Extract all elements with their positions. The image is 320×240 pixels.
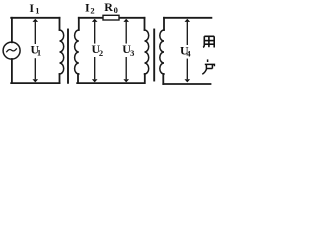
svg-text:2: 2 xyxy=(90,5,94,15)
voltage arrow U3 xyxy=(123,19,129,83)
label I2 xyxy=(85,1,95,16)
transformer T2 secondary coil xyxy=(160,30,164,74)
transformer T1 primary coil xyxy=(60,30,64,74)
transformer T1 secondary feed top xyxy=(78,18,80,30)
wire: middle loop top left segment xyxy=(79,17,103,19)
svg-text:I: I xyxy=(85,1,90,15)
svg-text:4: 4 xyxy=(186,48,191,58)
svg-text:3: 3 xyxy=(130,48,134,58)
svg-text:2: 2 xyxy=(99,48,103,58)
svg-text:I: I xyxy=(29,1,34,15)
transformer T2 core xyxy=(153,30,155,81)
label U1 xyxy=(30,42,41,57)
voltage arrow U4 xyxy=(185,19,191,83)
transformer T1 primary feed bottom xyxy=(59,74,61,83)
AC source G1 circle xyxy=(3,42,20,59)
voltage arrow U1 xyxy=(33,19,39,83)
transformer T2 primary coil xyxy=(145,30,149,74)
transformer T2 primary feed bottom xyxy=(144,74,146,83)
transformer T1 secondary coil xyxy=(75,30,79,74)
label U3 xyxy=(122,42,135,58)
AC source tilde xyxy=(7,49,17,52)
transformer T1 secondary feed bottom xyxy=(77,74,79,83)
svg-text:1: 1 xyxy=(35,6,39,16)
load text 用 (user) xyxy=(203,36,214,47)
wire: left loop bottom xyxy=(11,82,59,84)
transformer T2 primary feed top xyxy=(144,18,146,30)
transformer T1 core xyxy=(67,30,69,83)
label I1 xyxy=(29,1,39,16)
wire: middle loop bottom xyxy=(77,82,144,84)
load text 户 (user) xyxy=(202,59,214,74)
svg-text:0: 0 xyxy=(114,5,118,15)
label U4 xyxy=(179,43,192,58)
resistor R0 box xyxy=(103,15,119,20)
voltage arrow U2 xyxy=(92,19,98,83)
transformer T2 secondary feed bottom xyxy=(162,74,164,84)
wire: right loop bottom xyxy=(163,83,210,85)
transformer T2 secondary feed top xyxy=(163,18,165,30)
wire: middle loop top right segment xyxy=(119,17,145,19)
wire: left loop left vertical lower xyxy=(11,59,13,83)
wire: right loop top xyxy=(164,17,211,19)
wire: left loop left vertical upper xyxy=(11,18,13,43)
svg-text:R: R xyxy=(104,0,113,14)
wire: left loop top xyxy=(11,17,59,19)
svg-text:1: 1 xyxy=(37,48,41,58)
transformer T1 primary feed top xyxy=(59,18,61,30)
label R0 xyxy=(104,0,118,15)
label U2 xyxy=(91,42,104,58)
